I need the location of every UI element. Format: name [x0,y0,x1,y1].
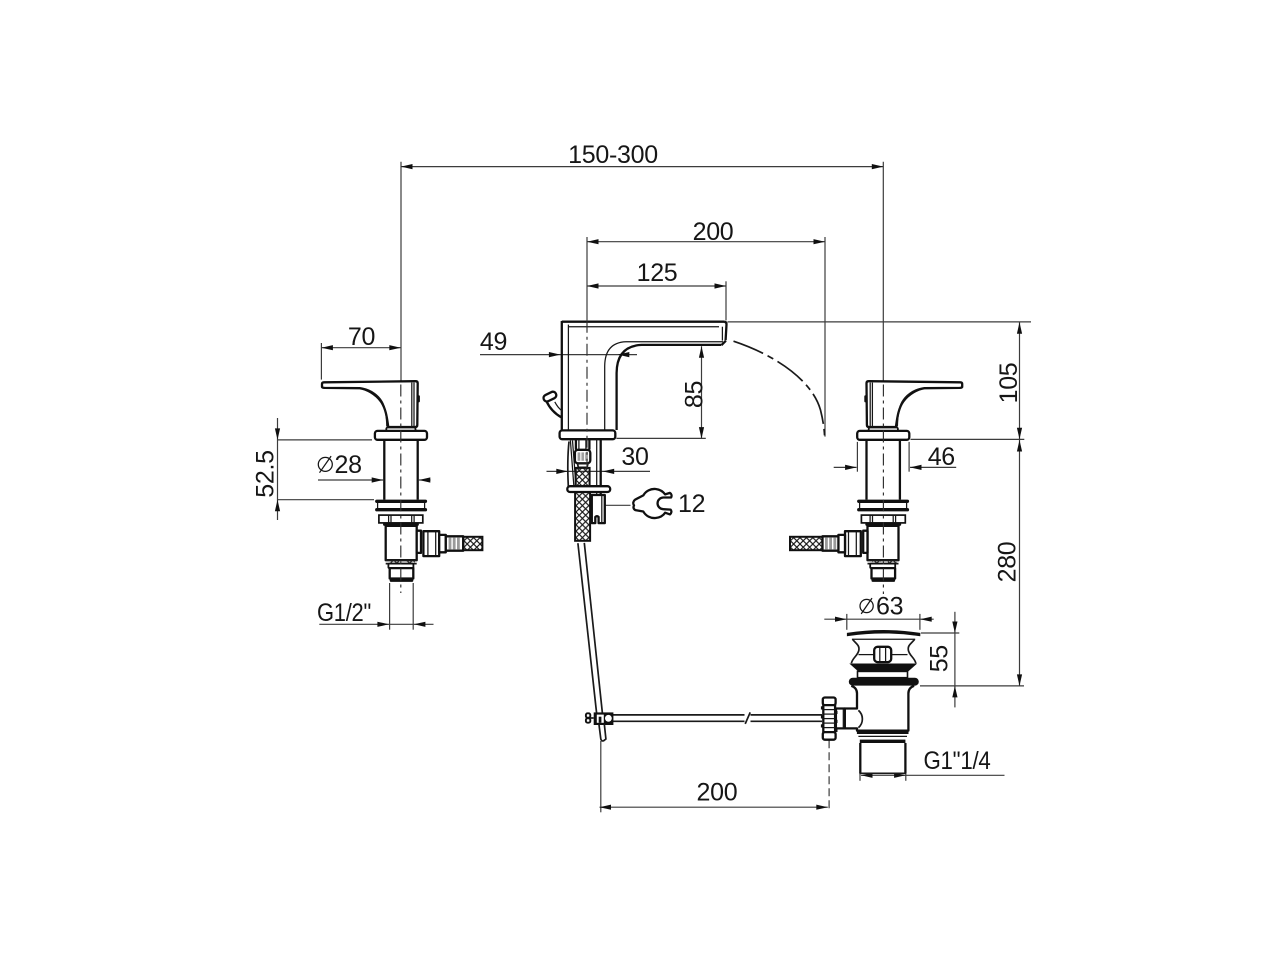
rod clamp block [594,712,614,725]
rod lower end [599,724,606,741]
svg-text:46: 46 [928,443,955,471]
svg-text:280: 280 [994,542,1022,583]
handle H1 lever (left) [322,381,418,427]
dimension 49 (spout body depth) [480,328,637,357]
svg-text:70: 70 [348,323,375,351]
valve body (right) [868,526,899,560]
svg-text:28: 28 [335,451,362,479]
dimension 85 (spout outlet height) [616,346,708,438]
thread hatch band (right) [868,559,899,561]
outlet boss (left) [417,531,421,553]
dimension 200 (spout center to water fall) [587,218,825,437]
dimension 105 (spout top height) [728,322,1032,440]
o-ring groove edges (left) [377,503,379,508]
waste body lower band (black) [857,731,909,735]
dimension G1"1/4 (waste thread) [860,747,1005,781]
centerline handle H1 [400,385,402,594]
lower collar (left) [388,564,413,569]
handle H1 side notch [417,395,420,402]
centerline spout [586,321,588,468]
nut skirt (spout) [577,463,589,467]
waste rim underside [852,638,915,640]
svg-text:30: 30 [621,443,648,471]
svg-text:G1/2": G1/2" [317,599,371,627]
svg-text:G1"1/4: G1"1/4 [924,747,991,775]
braided hose end (right) [790,537,823,550]
water stream arc (dashed) [734,341,825,436]
spout inner vertical line [567,325,569,430]
wrench 12 icon [605,489,705,518]
slotted mounting nut (spout) [592,495,605,523]
spout left edge [561,321,563,430]
svg-text:49: 49 [480,328,507,356]
dimension phi63 (waste flange diameter) [824,593,933,630]
vertical adjuster bottom cap [823,732,836,740]
G1/2 threaded tail (left) [390,568,414,578]
handle H2 cap facet lines [871,383,873,427]
hose ferrule (left) [446,536,463,550]
dimension 46 (escutcheon diameter) [834,442,957,472]
braided shank lower (spout) [575,492,590,541]
horizontal linkage rod [612,714,744,716]
dimension 280 (deck to drain bottom) [920,439,1024,686]
shank tube (left) [383,440,385,500]
waste stem lines [859,654,875,656]
dimension phi28 (shank diameter) [318,451,431,483]
shank tube (right) [865,440,867,500]
handle H1 neck contour line [364,388,387,426]
svg-text:200: 200 [696,779,737,807]
escutcheon flange (left) [375,431,427,440]
rod clamp screw [586,713,590,717]
o-ring groove edges (right) [859,503,861,508]
threaded stud (spout) [596,439,598,495]
outlet boss (right) [863,531,867,553]
spout tip [725,322,727,340]
handle H2 side notch [864,395,867,402]
lift rod knob behind spout [542,391,557,403]
waste body [845,686,914,731]
svg-text:105: 105 [995,363,1023,404]
dimension G1/2 (inlet thread) [317,583,434,630]
waste tailpipe [859,743,861,773]
svg-text:200: 200 [693,218,734,246]
dimension 125 (spout reach) [587,259,726,320]
dimension 150-300 (overall handle spacing) [401,141,883,381]
svg-text:85: 85 [681,381,709,408]
ball joint arc [858,710,862,727]
waste lock ring (black) [860,740,906,743]
handle H1 cap facet lines [411,383,413,427]
spout top edge [562,321,725,323]
waste plug rim [847,630,920,636]
mounting step ring (left) [379,515,423,523]
waste gasket line [858,735,907,737]
spout shank neck [575,439,577,449]
svg-text:125: 125 [637,259,678,287]
o-ring 1 (left) [375,500,427,503]
seal washer (right) [865,523,901,526]
waste neck right curve [908,639,916,663]
pop-up rod to linkage [578,543,597,713]
valve body (left) [386,526,417,560]
vertical adjuster rod top cap [823,698,836,706]
pull rod upper curve [568,442,569,487]
centerline handle H2 [882,385,884,595]
deck seal washer (black) [849,678,919,686]
svg-text:150-300: 150-300 [568,141,658,169]
spout underside outer line [605,342,723,430]
handle H2 lever (right) [867,381,963,427]
mounting washer (spout) [567,486,610,492]
dimension 30 (spout shank) [547,443,651,474]
o-ring 2 (left) [375,508,427,511]
hose ferrule (right) [823,536,839,550]
compression nut (right) [845,531,861,556]
handle H2 base cap [869,428,898,432]
spout underside and bend [617,345,722,430]
dimension 52.5 (body length under deck) [252,418,375,520]
mounting step ring (right) [861,515,905,523]
lower collar (right) [870,564,895,569]
vertical adjuster serrated section [823,705,835,732]
o-ring 1 (right) [857,500,909,503]
dimension 55 (waste height) [921,612,959,708]
o-ring 2 (right) [857,508,909,511]
braided hose end (left) [463,537,482,550]
seal washer (left) [383,523,419,526]
rod break mark [745,712,750,724]
thread hatch band (left) [386,559,417,561]
svg-text:12: 12 [678,490,705,518]
shank knurl nut (spout) [575,450,590,464]
handle H2 neck contour line [897,388,920,426]
dimension 70 (handle length) [321,323,400,380]
G1/2 threaded tail (right) [872,568,896,578]
braided shank upper (spout) [576,468,590,487]
handle H1 base cap [386,428,415,432]
svg-text:55: 55 [926,645,954,672]
spout escutcheon flange [560,430,616,439]
waste side port connector [836,709,845,729]
escutcheon flange (right) [857,431,909,440]
waste neck left curve [851,639,859,663]
svg-text:52.5: 52.5 [252,450,280,497]
hose collar (left) [439,535,446,552]
rubber cone seal (black) [849,664,917,672]
waste adjuster knob [874,647,891,662]
seal spacer ring [858,671,908,677]
compression nut (left) [423,531,439,556]
hose collar (right) [838,535,845,552]
spout top inner line [568,326,719,328]
svg-text:63: 63 [876,593,903,621]
dimension 200 (rod to waste center) [600,740,830,812]
